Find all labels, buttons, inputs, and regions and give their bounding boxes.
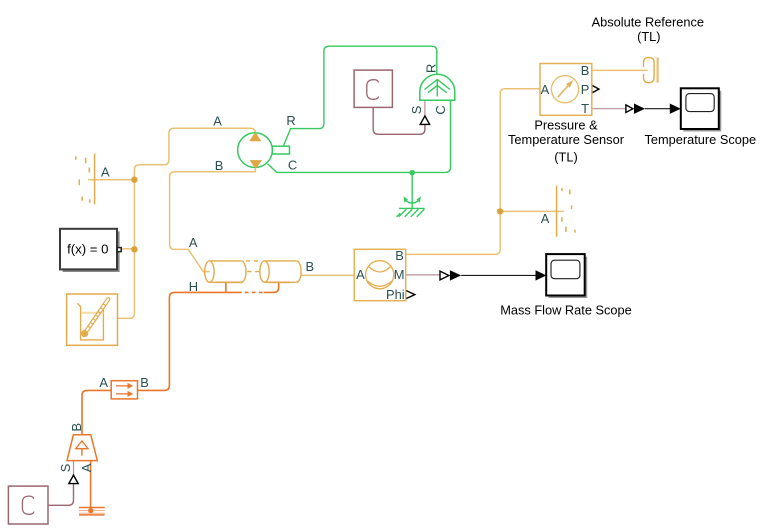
svg-text:A: A <box>79 463 94 472</box>
svg-text:(TL): (TL) <box>554 149 577 164</box>
svg-text:A: A <box>101 165 110 180</box>
svg-text:A: A <box>189 235 198 250</box>
svg-text:B: B <box>305 259 314 274</box>
svg-text:A: A <box>213 114 222 129</box>
svg-text:B: B <box>215 158 224 173</box>
svg-text:Temperature Scope: Temperature Scope <box>644 132 756 147</box>
svg-text:S: S <box>409 106 424 115</box>
svg-text:Mass Flow Rate Scope: Mass Flow Rate Scope <box>500 302 632 317</box>
svg-text:C: C <box>433 105 448 114</box>
svg-text:P: P <box>581 82 590 97</box>
svg-text:M: M <box>394 267 405 282</box>
svg-text:B: B <box>69 423 84 432</box>
svg-text:T: T <box>581 101 589 116</box>
svg-text:A: A <box>356 267 365 282</box>
svg-text:Phi: Phi <box>386 287 405 302</box>
svg-text:B: B <box>395 248 404 263</box>
svg-text:S: S <box>58 464 73 473</box>
svg-text:C: C <box>288 157 297 172</box>
svg-text:R: R <box>286 113 295 128</box>
svg-text:B: B <box>581 63 590 78</box>
svg-text:B: B <box>140 375 149 390</box>
svg-text:A: A <box>541 211 550 226</box>
svg-text:(TL): (TL) <box>637 29 660 44</box>
svg-text:R: R <box>424 64 439 73</box>
svg-text:H: H <box>189 279 198 294</box>
svg-text:Absolute Reference: Absolute Reference <box>592 15 704 30</box>
svg-text:A: A <box>99 375 108 390</box>
svg-text:Pressure &: Pressure & <box>534 118 598 133</box>
svg-text:f(x) = 0: f(x) = 0 <box>67 242 108 257</box>
svg-text:A: A <box>541 82 550 97</box>
svg-text:Temperature Sensor: Temperature Sensor <box>508 132 625 147</box>
